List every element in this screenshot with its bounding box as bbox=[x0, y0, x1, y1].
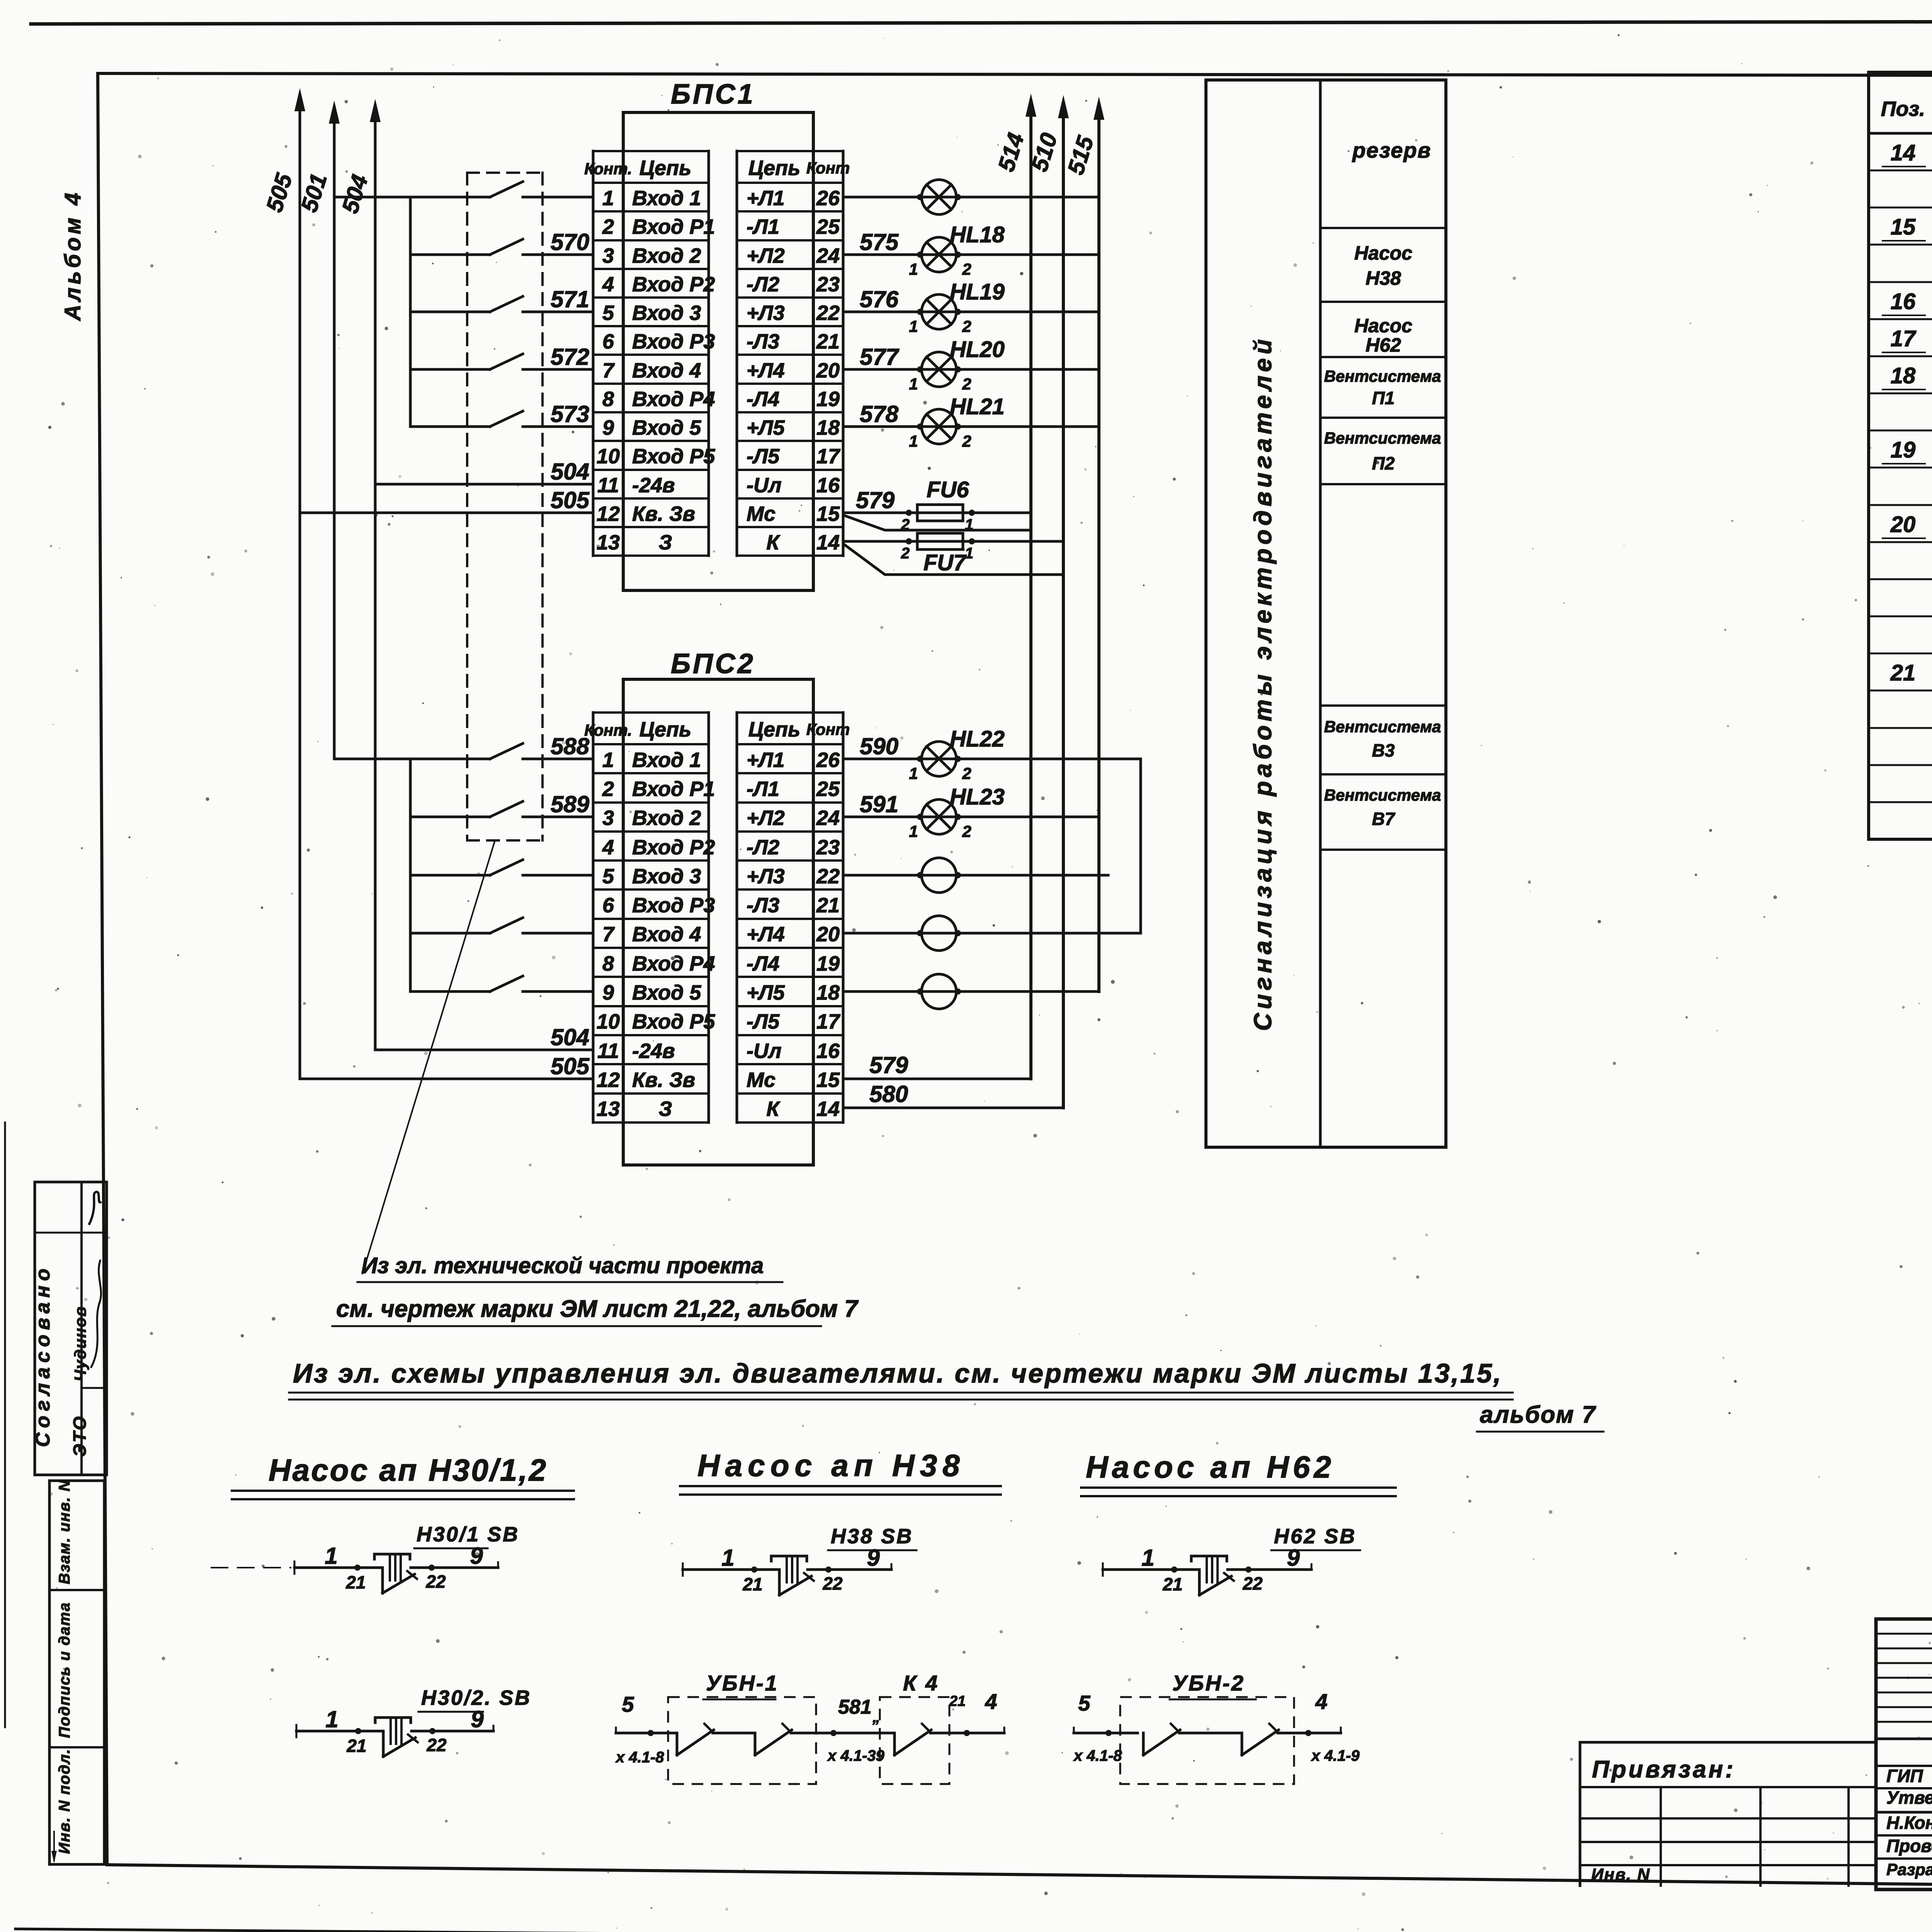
svg-text:альбом 7: альбом 7 bbox=[1480, 1401, 1596, 1428]
svg-text:З: З bbox=[659, 531, 672, 554]
svg-text:Насос ап Н30/1,2: Насос ап Н30/1,2 bbox=[269, 1453, 548, 1487]
svg-text:Мс: Мс bbox=[747, 1068, 776, 1092]
svg-text:+Л3: +Л3 bbox=[747, 865, 785, 888]
svg-text:-Л1: -Л1 bbox=[747, 777, 779, 801]
svg-text:7: 7 bbox=[602, 359, 615, 382]
svg-text:Из эл. схемы управления: Из эл. схемы управления эл. двигателями.… bbox=[293, 1358, 1502, 1388]
svg-text:Н.Контр.: Н.Контр. bbox=[1886, 1813, 1932, 1833]
svg-text:Привязан:: Привязан: bbox=[1592, 1756, 1736, 1783]
svg-text:14: 14 bbox=[816, 1097, 840, 1121]
svg-text:590: 590 bbox=[860, 733, 898, 759]
svg-text:21: 21 bbox=[816, 894, 840, 917]
svg-text:16: 16 bbox=[816, 474, 840, 497]
svg-text:„: „ bbox=[872, 1709, 880, 1726]
svg-text:Альбом 4: Альбом 4 bbox=[60, 190, 85, 321]
svg-text:21: 21 bbox=[1890, 660, 1916, 685]
svg-text:+Л1: +Л1 bbox=[747, 748, 785, 772]
svg-text:12: 12 bbox=[597, 502, 620, 526]
svg-text:Чудинов: Чудинов bbox=[71, 1306, 89, 1381]
svg-text:УБН-1: УБН-1 bbox=[706, 1671, 779, 1695]
svg-text:20: 20 bbox=[816, 923, 840, 946]
svg-text:-Л5: -Л5 bbox=[747, 1010, 780, 1033]
svg-text:FU7: FU7 bbox=[923, 550, 967, 575]
svg-text:-Л2: -Л2 bbox=[747, 273, 779, 296]
svg-text:Кв. Зв: Кв. Зв bbox=[632, 1068, 695, 1092]
svg-text:1: 1 bbox=[909, 764, 918, 782]
svg-text:591: 591 bbox=[860, 791, 898, 817]
svg-text:Конт: Конт bbox=[806, 159, 850, 177]
svg-text:3: 3 bbox=[602, 244, 614, 267]
svg-text:Цепь: Цепь bbox=[748, 718, 800, 741]
svg-text:П1: П1 bbox=[1372, 388, 1395, 408]
svg-text:Вход 4: Вход 4 bbox=[632, 359, 701, 382]
svg-text:15: 15 bbox=[816, 1068, 840, 1092]
svg-text:3: 3 bbox=[602, 806, 614, 830]
svg-text:10: 10 bbox=[597, 445, 620, 468]
svg-text:+Л4: +Л4 bbox=[747, 923, 785, 946]
svg-text:Вход 4: Вход 4 bbox=[632, 923, 701, 946]
svg-text:5: 5 bbox=[1078, 1691, 1090, 1715]
svg-text:25: 25 bbox=[816, 215, 840, 238]
svg-text:2: 2 bbox=[962, 260, 971, 278]
svg-text:Вход 3: Вход 3 bbox=[632, 865, 701, 888]
svg-text:24: 24 bbox=[816, 244, 840, 267]
svg-text:-Л4: -Л4 bbox=[747, 388, 779, 411]
svg-text:-Л3: -Л3 bbox=[747, 330, 779, 353]
svg-text:9: 9 bbox=[867, 1545, 880, 1571]
svg-text:HL23: HL23 bbox=[950, 784, 1005, 810]
svg-text:-Л2: -Л2 bbox=[747, 836, 779, 859]
svg-text:21: 21 bbox=[1162, 1574, 1182, 1594]
svg-text:Вентсистема: Вентсистема bbox=[1324, 786, 1441, 804]
svg-text:9: 9 bbox=[602, 416, 614, 439]
svg-text:6: 6 bbox=[602, 894, 614, 917]
svg-text:Вход 5: Вход 5 bbox=[632, 981, 701, 1004]
svg-text:Инв. N: Инв. N bbox=[1591, 1865, 1650, 1884]
svg-text:Сигнализация работы электрод: Сигнализация работы электродвигателей bbox=[1249, 335, 1277, 1031]
svg-text:8: 8 bbox=[602, 388, 614, 411]
svg-text:5: 5 bbox=[602, 301, 614, 325]
svg-text:22: 22 bbox=[816, 865, 840, 888]
svg-text:1: 1 bbox=[909, 822, 918, 840]
svg-text:Вход 2: Вход 2 bbox=[632, 244, 701, 267]
svg-text:9: 9 bbox=[471, 1706, 484, 1732]
svg-text:-Uл: -Uл bbox=[747, 1039, 782, 1063]
svg-text:1: 1 bbox=[602, 748, 614, 772]
svg-text:х 4.1-39: х 4.1-39 bbox=[827, 1747, 885, 1764]
svg-text:Вход 2: Вход 2 bbox=[632, 806, 701, 830]
svg-text:579: 579 bbox=[856, 487, 895, 513]
svg-text:2: 2 bbox=[962, 822, 971, 840]
svg-text:х 4.1-8: х 4.1-8 bbox=[1073, 1747, 1122, 1764]
svg-text:Вентсистема: Вентсистема bbox=[1324, 367, 1441, 385]
svg-text:25: 25 bbox=[816, 777, 840, 801]
svg-text:-Л1: -Л1 bbox=[747, 215, 779, 238]
svg-text:18: 18 bbox=[816, 416, 840, 439]
svg-text:УБН-2: УБН-2 bbox=[1172, 1671, 1245, 1695]
svg-text:Вход Р4: Вход Р4 bbox=[632, 388, 715, 411]
svg-text:11: 11 bbox=[597, 474, 619, 497]
svg-text:20: 20 bbox=[1890, 512, 1916, 537]
svg-text:К: К bbox=[766, 1097, 781, 1121]
svg-text:588: 588 bbox=[551, 733, 590, 759]
svg-text:Вход 3: Вход 3 bbox=[632, 301, 701, 325]
svg-text:5: 5 bbox=[602, 865, 614, 888]
svg-text:Конт.: Конт. bbox=[584, 160, 632, 178]
svg-text:Проверил: Проверил bbox=[1886, 1836, 1932, 1856]
svg-text:505: 505 bbox=[261, 170, 298, 215]
svg-text:FU6: FU6 bbox=[927, 477, 969, 502]
svg-text:504: 504 bbox=[337, 172, 373, 216]
svg-text:Вентсистема: Вентсистема bbox=[1324, 718, 1441, 736]
svg-text:Вход 1: Вход 1 bbox=[632, 748, 701, 772]
svg-text:504: 504 bbox=[551, 459, 589, 485]
svg-text:Поз.: Поз. bbox=[1881, 97, 1925, 121]
svg-text:+Л4: +Л4 bbox=[747, 359, 785, 382]
svg-text:21: 21 bbox=[742, 1574, 762, 1594]
svg-text:21: 21 bbox=[345, 1572, 366, 1592]
svg-text:К 4: К 4 bbox=[903, 1671, 939, 1695]
svg-text:Вход Р3: Вход Р3 bbox=[632, 330, 715, 353]
svg-text:Утвердил: Утвердил bbox=[1886, 1787, 1932, 1808]
svg-text:2: 2 bbox=[901, 545, 910, 562]
svg-text:+Л1: +Л1 bbox=[747, 187, 785, 210]
svg-text:ЭТО: ЭТО bbox=[70, 1415, 90, 1457]
svg-text:1: 1 bbox=[602, 187, 614, 210]
svg-text:Подпись и дата: Подпись и дата bbox=[56, 1602, 73, 1738]
svg-text:504: 504 bbox=[551, 1024, 589, 1050]
svg-text:18: 18 bbox=[1891, 363, 1916, 388]
svg-text:572: 572 bbox=[551, 344, 589, 370]
svg-text:+Л3: +Л3 bbox=[747, 301, 785, 325]
svg-text:22: 22 bbox=[426, 1735, 447, 1755]
svg-text:21: 21 bbox=[816, 330, 840, 353]
svg-text:17: 17 bbox=[816, 1010, 841, 1033]
svg-text:2: 2 bbox=[602, 777, 614, 801]
svg-text:Вход Р1: Вход Р1 bbox=[632, 777, 715, 801]
svg-text:Вентсистема: Вентсистема bbox=[1324, 429, 1441, 447]
svg-text:В3: В3 bbox=[1372, 740, 1395, 760]
svg-text:HL19: HL19 bbox=[950, 279, 1005, 304]
svg-text:21: 21 bbox=[949, 1693, 966, 1709]
svg-text:23: 23 bbox=[816, 273, 840, 296]
svg-text:5: 5 bbox=[622, 1692, 634, 1716]
svg-text:17: 17 bbox=[1891, 326, 1917, 351]
svg-text:1: 1 bbox=[325, 1706, 338, 1732]
svg-text:18: 18 bbox=[816, 981, 840, 1004]
svg-text:1: 1 bbox=[721, 1545, 734, 1571]
svg-text:Насос: Насос bbox=[1354, 242, 1412, 264]
svg-text:15: 15 bbox=[816, 502, 840, 526]
svg-text:Кв. Зв: Кв. Зв bbox=[632, 502, 695, 526]
svg-text:4: 4 bbox=[1315, 1689, 1327, 1714]
svg-text:11: 11 bbox=[597, 1039, 619, 1063]
svg-text:Конт: Конт bbox=[806, 720, 850, 738]
svg-text:HL21: HL21 bbox=[950, 394, 1005, 419]
svg-text:Вход Р5: Вход Р5 bbox=[632, 445, 715, 468]
svg-text:22: 22 bbox=[816, 301, 840, 325]
svg-text:7: 7 bbox=[602, 923, 615, 946]
svg-text:Цепь: Цепь bbox=[748, 156, 800, 180]
svg-text:1: 1 bbox=[325, 1543, 337, 1569]
svg-text:БПС2: БПС2 bbox=[671, 648, 755, 679]
svg-text:4: 4 bbox=[985, 1689, 997, 1714]
svg-text:Н30/2. SB: Н30/2. SB bbox=[421, 1686, 531, 1709]
svg-text:576: 576 bbox=[860, 286, 899, 312]
svg-text:-Uл: -Uл bbox=[747, 474, 782, 497]
svg-text:505: 505 bbox=[551, 487, 590, 513]
svg-text:4: 4 bbox=[602, 273, 614, 296]
svg-text:Цепь: Цепь bbox=[639, 718, 691, 741]
svg-text:15: 15 bbox=[1891, 214, 1916, 240]
svg-text:514: 514 bbox=[993, 130, 1029, 174]
svg-text:21: 21 bbox=[346, 1736, 366, 1756]
svg-text:505: 505 bbox=[551, 1053, 590, 1079]
svg-text:578: 578 bbox=[860, 401, 899, 427]
svg-text:9: 9 bbox=[1287, 1545, 1300, 1571]
svg-text:16: 16 bbox=[816, 1039, 840, 1063]
svg-text:х 4.1-9: х 4.1-9 bbox=[1311, 1747, 1360, 1764]
svg-text:-Л5: -Л5 bbox=[747, 445, 780, 468]
svg-text:Н30/1 SB: Н30/1 SB bbox=[417, 1523, 519, 1546]
svg-text:2: 2 bbox=[602, 215, 614, 238]
svg-text:1: 1 bbox=[909, 317, 918, 335]
svg-text:24: 24 bbox=[816, 806, 840, 830]
svg-text:+Л2: +Л2 bbox=[747, 244, 785, 267]
svg-text:резерв: резерв bbox=[1352, 138, 1431, 162]
svg-text:19: 19 bbox=[816, 388, 840, 411]
svg-text:2: 2 bbox=[962, 317, 971, 335]
svg-text:2: 2 bbox=[962, 432, 971, 450]
svg-text:Вход Р4: Вход Р4 bbox=[632, 952, 715, 975]
svg-text:Вход Р5: Вход Р5 bbox=[632, 1010, 715, 1033]
svg-text:Вход 5: Вход 5 bbox=[632, 416, 701, 439]
svg-text:HL22: HL22 bbox=[950, 726, 1005, 752]
svg-text:9: 9 bbox=[602, 981, 614, 1004]
svg-text:20: 20 bbox=[816, 359, 840, 382]
svg-text:2: 2 bbox=[962, 375, 971, 393]
svg-text:-Л4: -Л4 bbox=[747, 952, 779, 975]
svg-text:577: 577 bbox=[860, 344, 900, 370]
svg-text:570: 570 bbox=[551, 229, 589, 255]
svg-text:501: 501 bbox=[296, 170, 332, 215]
svg-text:Цепь: Цепь bbox=[639, 156, 691, 180]
svg-text:ГИП: ГИП bbox=[1886, 1766, 1923, 1786]
svg-text:575: 575 bbox=[860, 229, 899, 255]
svg-text:1: 1 bbox=[909, 260, 918, 278]
svg-text:1: 1 bbox=[1141, 1545, 1154, 1571]
svg-text:Разработ.: Разработ. bbox=[1886, 1861, 1932, 1879]
svg-text:8: 8 bbox=[602, 952, 614, 975]
svg-text:580: 580 bbox=[869, 1081, 908, 1107]
svg-text:+Л2: +Л2 bbox=[747, 806, 785, 830]
svg-text:х 4.1-8: х 4.1-8 bbox=[615, 1749, 664, 1766]
svg-text:П2: П2 bbox=[1372, 453, 1395, 473]
svg-text:Инв. N подл.: Инв. N подл. bbox=[56, 1748, 73, 1854]
svg-text:-24в: -24в bbox=[632, 1039, 675, 1063]
svg-text:22: 22 bbox=[822, 1573, 843, 1594]
svg-text:4: 4 bbox=[602, 836, 614, 859]
svg-text:Согласовано: Согласовано bbox=[32, 1264, 54, 1447]
svg-text:З: З bbox=[659, 1097, 672, 1121]
svg-text:Насос: Насос bbox=[1354, 315, 1412, 337]
svg-text:Вход 1: Вход 1 bbox=[632, 187, 701, 210]
svg-text:Вход Р1: Вход Р1 bbox=[632, 215, 715, 238]
svg-text:1: 1 bbox=[909, 432, 918, 450]
svg-text:17: 17 bbox=[816, 445, 841, 468]
svg-text:26: 26 bbox=[816, 748, 840, 772]
svg-text:Из эл. технической части пр: Из эл. технической части проекта bbox=[361, 1253, 764, 1278]
svg-text:19: 19 bbox=[1891, 437, 1916, 463]
svg-text:-Л3: -Л3 bbox=[747, 894, 779, 917]
svg-text:515: 515 bbox=[1063, 133, 1099, 178]
svg-text:23: 23 bbox=[816, 836, 840, 859]
svg-text:22: 22 bbox=[425, 1571, 446, 1592]
svg-text:12: 12 bbox=[597, 1068, 620, 1092]
svg-text:13: 13 bbox=[597, 1097, 620, 1121]
svg-text:13: 13 bbox=[597, 531, 620, 554]
svg-text:1: 1 bbox=[965, 545, 973, 562]
svg-text:Н62: Н62 bbox=[1366, 334, 1401, 356]
svg-text:2: 2 bbox=[962, 764, 971, 782]
svg-text:589: 589 bbox=[551, 791, 590, 817]
svg-text:573: 573 bbox=[551, 401, 589, 427]
svg-text:К: К bbox=[766, 531, 781, 554]
svg-text:1: 1 bbox=[909, 375, 918, 393]
svg-text:Н38 SB: Н38 SB bbox=[831, 1525, 913, 1548]
svg-text:HL18: HL18 bbox=[950, 222, 1005, 247]
svg-text:Насос ап Н62: Насос ап Н62 bbox=[1086, 1450, 1335, 1484]
svg-text:19: 19 bbox=[816, 952, 840, 975]
svg-text:Насос ап Н38: Насос ап Н38 bbox=[697, 1448, 965, 1483]
svg-text:Н38: Н38 bbox=[1366, 267, 1401, 289]
svg-text:Вход Р2: Вход Р2 bbox=[632, 273, 715, 296]
svg-text:9: 9 bbox=[470, 1543, 483, 1569]
svg-text:Н62 SB: Н62 SB bbox=[1274, 1525, 1356, 1548]
svg-text:579: 579 bbox=[869, 1052, 908, 1078]
svg-text:Вход Р2: Вход Р2 bbox=[632, 836, 715, 859]
svg-text:14: 14 bbox=[816, 531, 840, 554]
svg-text:16: 16 bbox=[1891, 289, 1916, 314]
svg-text:HL20: HL20 bbox=[950, 337, 1005, 362]
svg-text:Конт.: Конт. bbox=[584, 721, 632, 739]
svg-text:+Л5: +Л5 bbox=[747, 416, 785, 439]
svg-text:В7: В7 bbox=[1372, 809, 1396, 829]
svg-text:Мс: Мс bbox=[747, 502, 776, 526]
svg-text:10: 10 bbox=[597, 1010, 620, 1033]
svg-text:26: 26 bbox=[816, 187, 840, 210]
svg-text:22: 22 bbox=[1242, 1573, 1263, 1594]
svg-text:+Л5: +Л5 bbox=[747, 981, 785, 1004]
svg-text:14: 14 bbox=[1891, 140, 1916, 165]
svg-text:Вход Р3: Вход Р3 bbox=[632, 894, 715, 917]
svg-text:581: 581 bbox=[838, 1696, 872, 1718]
svg-text:-24в: -24в bbox=[632, 474, 675, 497]
svg-text:6: 6 bbox=[602, 330, 614, 353]
svg-text:см. чертеж марки ЭМ лист 21: см. чертеж марки ЭМ лист 21,22, альбом 7 bbox=[336, 1296, 859, 1322]
svg-text:Взам. инв. N: Взам. инв. N bbox=[56, 1480, 73, 1584]
svg-text:БПС1: БПС1 bbox=[671, 79, 755, 110]
svg-text:571: 571 bbox=[551, 286, 589, 312]
